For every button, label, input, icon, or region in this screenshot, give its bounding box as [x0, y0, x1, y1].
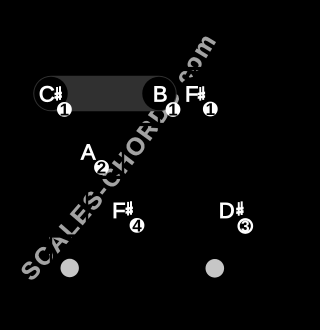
svg-text:4: 4 [132, 217, 142, 236]
svg-text:2: 2 [97, 159, 106, 178]
svg-text:1: 1 [60, 101, 69, 120]
svg-text:1: 1 [206, 100, 215, 119]
svg-text:D: D [219, 198, 235, 223]
svg-text:3: 3 [241, 219, 250, 236]
svg-text:C: C [39, 81, 55, 106]
svg-text:F: F [185, 81, 198, 106]
svg-text:1: 1 [168, 101, 177, 120]
svg-text:F: F [112, 198, 125, 223]
svg-text:B: B [153, 81, 168, 106]
svg-text:A: A [81, 140, 96, 165]
